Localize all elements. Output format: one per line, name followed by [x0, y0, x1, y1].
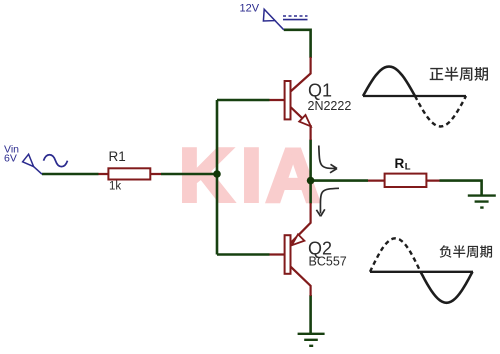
svg-text:2N2222: 2N2222: [308, 99, 352, 113]
svg-text:12V: 12V: [240, 2, 260, 14]
svg-text:A: A: [266, 133, 320, 217]
svg-text:L: L: [405, 162, 411, 173]
svg-text:1k: 1k: [109, 181, 121, 193]
svg-text:I: I: [241, 133, 262, 217]
svg-text:6V: 6V: [4, 152, 17, 164]
svg-text:BC557: BC557: [309, 255, 347, 269]
svg-text:R: R: [395, 156, 405, 171]
svg-text:R1: R1: [109, 149, 126, 164]
svg-text:Q1: Q1: [308, 81, 332, 101]
